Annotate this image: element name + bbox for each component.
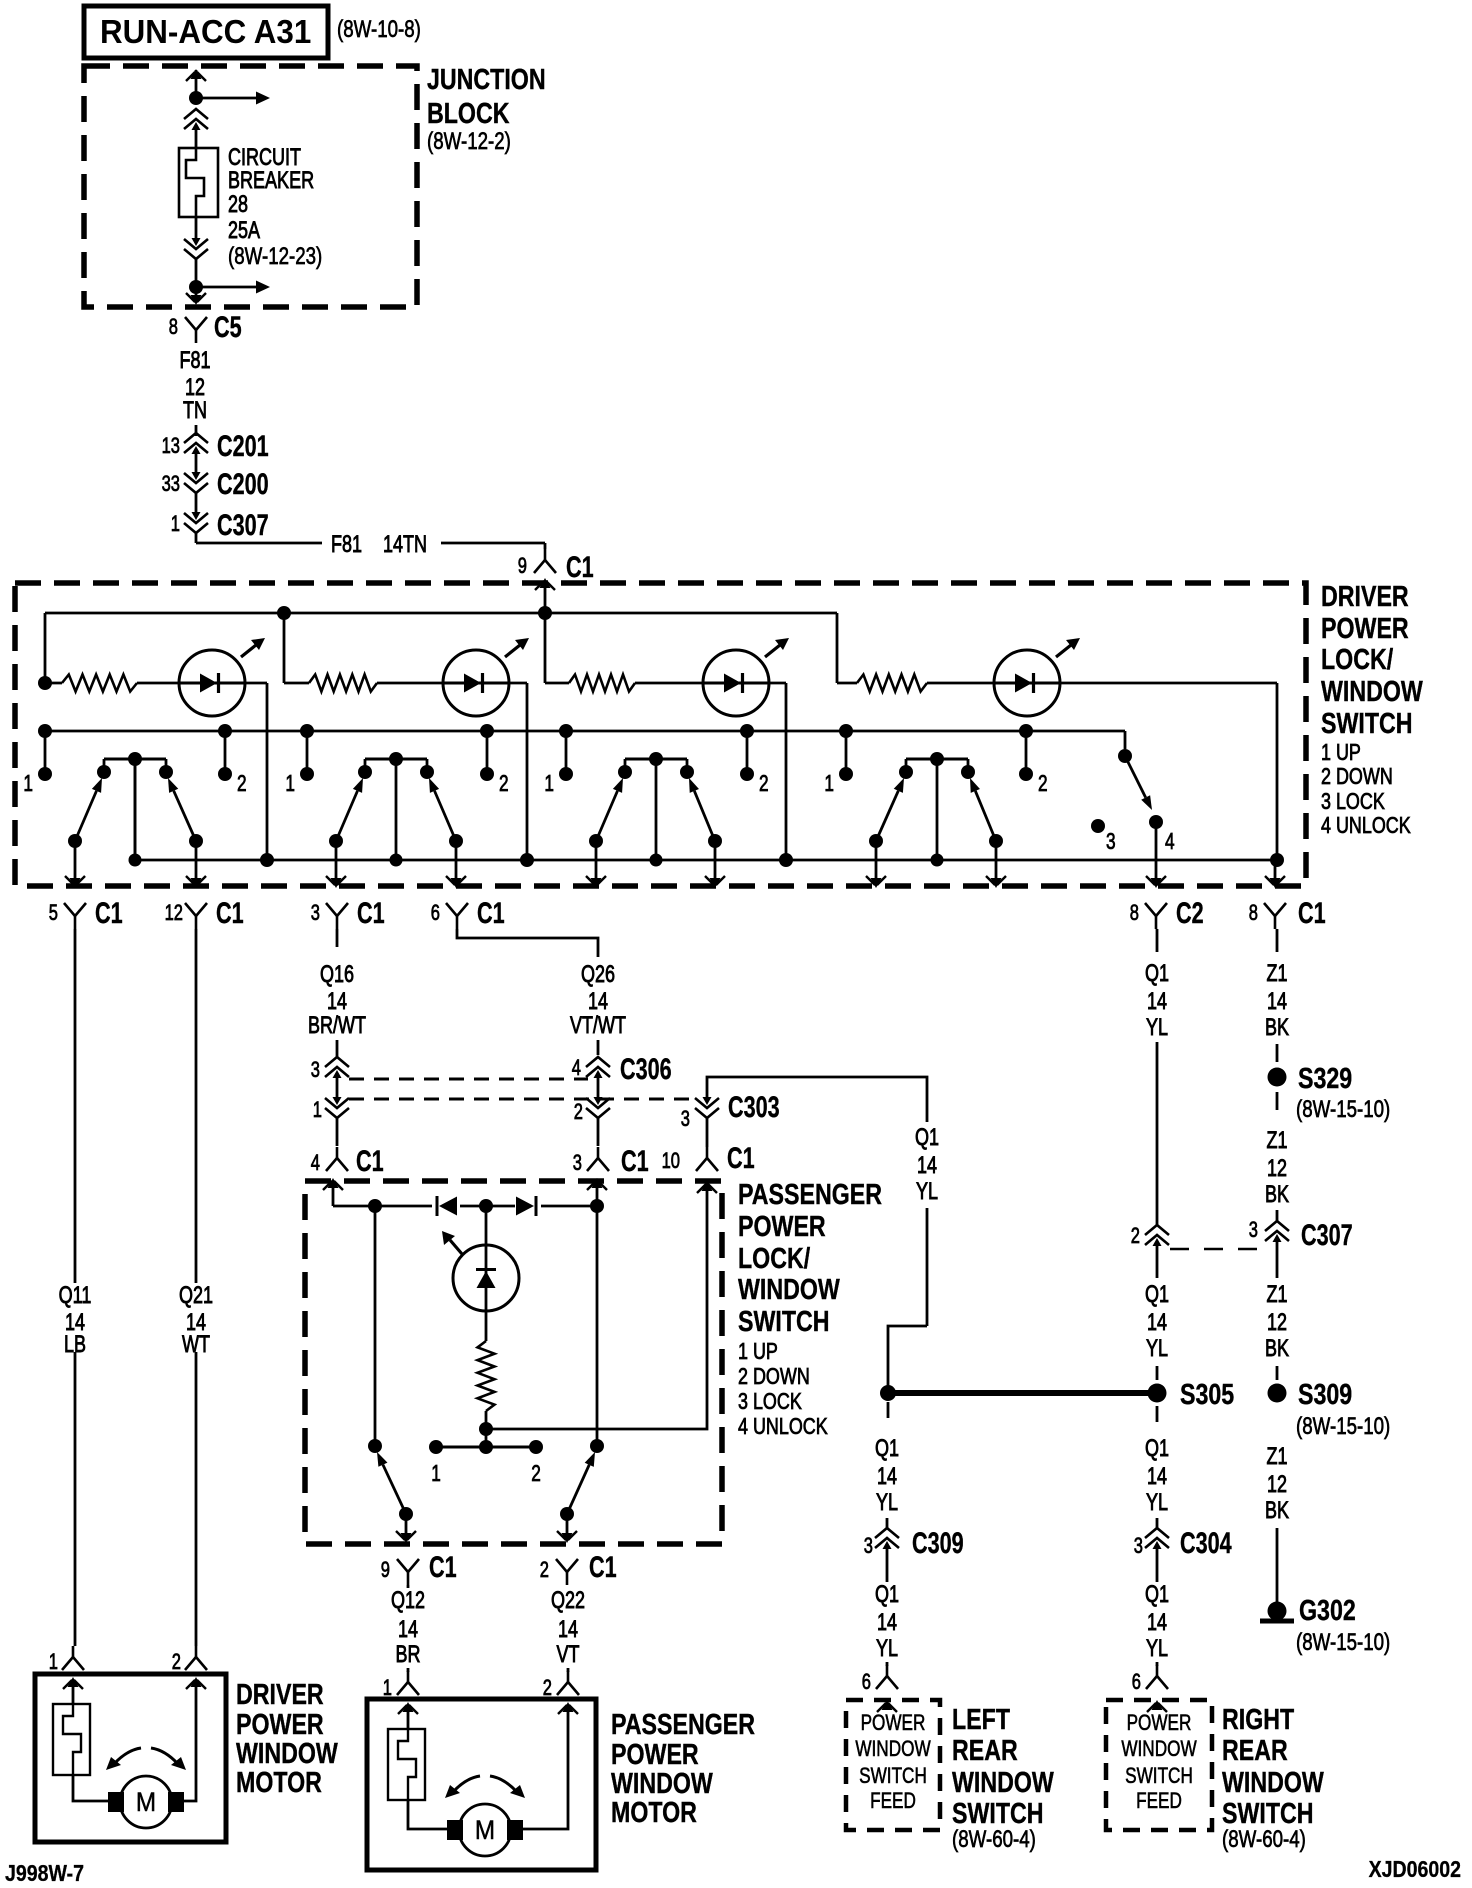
connector dashed link C307 <box>1170 1248 1262 1251</box>
connector C1 pin 2 below passenger <box>540 1551 617 1585</box>
connector pin 2 driver motor <box>172 1640 207 1674</box>
svg-text:C304: C304 <box>1180 1527 1232 1560</box>
wire feed unit3 <box>544 613 547 683</box>
svg-text:FEED: FEED <box>1136 1788 1182 1813</box>
svg-text:Q26: Q26 <box>581 961 615 988</box>
svg-text:12: 12 <box>1267 1309 1287 1336</box>
connector C1 pin 9 below passenger <box>381 1551 457 1585</box>
driver power window motor box <box>35 1674 226 1842</box>
connector C1 pin 6 below driver switch <box>431 897 505 930</box>
svg-text:2: 2 <box>540 1557 549 1582</box>
node 2 stub unit4 <box>1019 731 1033 781</box>
wire to G302 <box>1276 1528 1279 1602</box>
sheet label J998W-7 <box>5 1860 84 1886</box>
top bus wire <box>45 612 837 615</box>
svg-text:BK: BK <box>1265 1014 1289 1041</box>
svg-text:S305: S305 <box>1180 1379 1234 1411</box>
dash to S329 <box>1276 1044 1279 1062</box>
svg-text:BK: BK <box>1265 1181 1289 1208</box>
svg-text:3: 3 <box>864 1533 873 1558</box>
connector C1 pin 8 below driver switch <box>1249 897 1326 930</box>
svg-text:C5: C5 <box>214 311 242 344</box>
svg-text:SWITCH: SWITCH <box>1125 1763 1193 1788</box>
wire from RUN-ACC into junction block <box>186 69 206 98</box>
exit wires unit2 <box>326 841 466 888</box>
wire Q16 column <box>336 929 339 1057</box>
label 1 unit4 <box>824 770 834 796</box>
connector C306 pin 4 upper <box>572 1055 610 1097</box>
connector C5 pin 8 <box>169 311 242 344</box>
svg-text:1 UP: 1 UP <box>1321 739 1361 765</box>
passenger motor M <box>447 1804 523 1856</box>
svg-text:LOCK/: LOCK/ <box>1321 644 1393 676</box>
resistor unit1 <box>45 675 180 692</box>
LED indicator unit3 <box>703 638 789 716</box>
svg-text:9: 9 <box>381 1557 390 1582</box>
svg-text:1: 1 <box>431 1460 441 1486</box>
svg-text:25A: 25A <box>228 217 260 244</box>
svg-text:PASSENGER: PASSENGER <box>738 1179 882 1211</box>
connector dashed line C306 lower <box>349 1098 694 1101</box>
wire label Q1 14 YL upper <box>1145 960 1169 1041</box>
svg-text:YL: YL <box>1146 1014 1168 1041</box>
node feed dot top <box>189 91 203 105</box>
svg-text:POWER: POWER <box>738 1211 826 1243</box>
driver motor entry arrows <box>63 1677 206 1704</box>
junction dot resistor tap unit1 <box>38 676 52 690</box>
svg-text:4: 4 <box>1165 828 1175 854</box>
junction dot top bus unit2 <box>277 606 291 620</box>
svg-text:LB: LB <box>64 1331 86 1358</box>
svg-text:VT: VT <box>557 1641 580 1668</box>
svg-text:LOCK/: LOCK/ <box>738 1243 810 1275</box>
svg-text:WINDOW: WINDOW <box>738 1274 840 1306</box>
label DRIVER POWER WINDOW MOTOR <box>236 1679 338 1799</box>
svg-text:C201: C201 <box>217 430 269 463</box>
svg-text:YL: YL <box>916 1178 938 1205</box>
connector chevrons above breaker <box>184 109 208 148</box>
svg-text:C303: C303 <box>728 1091 780 1124</box>
svg-text:WT: WT <box>182 1331 210 1358</box>
wire to C201 <box>195 425 198 436</box>
connector C200 pin 33 <box>162 468 269 501</box>
svg-text:C309: C309 <box>912 1527 964 1560</box>
svg-text:Z1: Z1 <box>1267 1281 1288 1308</box>
connector C1 pin 5 below driver switch <box>49 897 123 930</box>
connector pin 6 right feed <box>1132 1662 1168 1694</box>
wire Q12 column <box>407 1585 410 1588</box>
svg-text:WINDOW: WINDOW <box>1121 1736 1196 1761</box>
exit wires unit3 <box>586 841 725 888</box>
driver motor wiring <box>73 1700 196 1801</box>
svg-text:3: 3 <box>311 1057 320 1082</box>
svg-text:8: 8 <box>1249 900 1258 925</box>
svg-text:28: 28 <box>228 191 248 218</box>
connector dashed line C306 upper <box>349 1078 588 1081</box>
connector C1 pin 10 entry passenger <box>662 1142 755 1175</box>
connector pin 1 driver motor <box>49 1640 84 1674</box>
node feed dot bottom <box>189 280 203 294</box>
wire label Z1 12 BK middle <box>1265 1281 1289 1362</box>
svg-text:Q21: Q21 <box>179 1282 213 1309</box>
wire Q11 column <box>74 929 77 1640</box>
svg-text:PASSENGER: PASSENGER <box>611 1709 755 1741</box>
svg-text:1: 1 <box>313 1097 322 1122</box>
label C306 <box>620 1053 672 1086</box>
switch common post unit2 <box>390 759 403 867</box>
svg-text:Q1: Q1 <box>1145 1435 1169 1462</box>
svg-text:2: 2 <box>237 770 247 796</box>
switch common post unit3 <box>650 759 663 867</box>
svg-text:Z1: Z1 <box>1267 960 1288 987</box>
node 1 stub unit1 <box>38 731 52 781</box>
wire label Z1 12 BK lower <box>1265 1443 1289 1524</box>
wire thick to S305 <box>888 1390 1157 1396</box>
svg-text:2: 2 <box>1038 770 1048 796</box>
node 1 stub unit3 <box>559 731 573 781</box>
junction dot bus2 node2 unit1 <box>218 724 232 738</box>
svg-text:REAR: REAR <box>1222 1735 1288 1767</box>
svg-text:C1: C1 <box>216 897 244 930</box>
wire label Q1 14 YL lower right <box>1145 1435 1169 1516</box>
svg-text:14: 14 <box>877 1463 897 1490</box>
wire label Q1 14 YL right of passenger box <box>915 1124 939 1205</box>
passenger power window motor box <box>367 1699 596 1870</box>
passenger motor circuit breaker <box>388 1729 425 1800</box>
svg-text:C1: C1 <box>356 1145 384 1178</box>
junction dot bus2 node2 unit3 <box>740 724 754 738</box>
junction dot Q1 branch <box>880 1385 896 1401</box>
svg-text:8: 8 <box>1130 900 1139 925</box>
connector C304 pin 3 <box>1134 1527 1232 1582</box>
svg-text:(8W-60-4): (8W-60-4) <box>952 1826 1036 1853</box>
connector C2 pin 8 below driver switch <box>1130 897 1204 930</box>
wire left feed column <box>887 1402 890 1418</box>
svg-text:WINDOW: WINDOW <box>1222 1767 1324 1799</box>
wire Q21 column <box>195 929 198 1640</box>
junction dot bus2 node1 unit2 <box>300 724 314 738</box>
bottom bus wire <box>135 761 1275 860</box>
svg-text:MOTOR: MOTOR <box>611 1797 697 1829</box>
splice S309 <box>1268 1379 1353 1411</box>
passenger left wiper <box>368 1206 413 1521</box>
dash to S309 <box>1276 1366 1279 1380</box>
svg-text:2: 2 <box>499 770 509 796</box>
wire LED output unit3 <box>768 683 786 860</box>
wire label Q26 14 VT/WT <box>570 961 626 1039</box>
splice S305 <box>1148 1379 1235 1411</box>
wire to C309 <box>886 1518 889 1528</box>
svg-text:TN: TN <box>183 397 207 424</box>
svg-text:(8W-60-4): (8W-60-4) <box>1222 1826 1306 1853</box>
svg-text:2: 2 <box>1131 1223 1140 1248</box>
svg-text:14: 14 <box>558 1616 578 1643</box>
wire to C307 pin3 <box>1276 1210 1279 1221</box>
svg-text:4 UNLOCK: 4 UNLOCK <box>738 1413 828 1439</box>
label PASSENGER POWER WINDOW MOTOR <box>611 1709 755 1829</box>
svg-text:J998W-7: J998W-7 <box>5 1860 84 1886</box>
sheet label XJD06002 <box>1369 1856 1461 1882</box>
dash below S305 <box>1156 1406 1159 1422</box>
svg-text:33: 33 <box>162 471 180 496</box>
wire to C307 <box>195 493 198 512</box>
connector C201 pin 13 <box>162 430 269 463</box>
svg-text:2 DOWN: 2 DOWN <box>1321 763 1393 789</box>
left rear feed dashed box <box>846 1700 940 1830</box>
connector pin 1 passenger motor <box>383 1668 419 1700</box>
wire label F81 12 TN <box>180 347 211 424</box>
svg-text:1: 1 <box>49 1649 58 1674</box>
svg-text:6: 6 <box>431 900 440 925</box>
svg-text:POWER: POWER <box>861 1710 926 1735</box>
svg-text:(8W-12-23): (8W-12-23) <box>228 243 322 270</box>
svg-text:S309: S309 <box>1298 1379 1352 1411</box>
driver motor rotation arrows <box>106 1748 186 1770</box>
svg-text:6: 6 <box>862 1669 871 1694</box>
svg-text:Q1: Q1 <box>875 1581 899 1608</box>
svg-text:YL: YL <box>876 1635 898 1662</box>
wire to C200 <box>195 454 198 472</box>
driver motor circuit breaker <box>53 1704 90 1775</box>
svg-text:(8W-15-10): (8W-15-10) <box>1296 1096 1390 1123</box>
wire label Q22 14 VT <box>551 1587 585 1668</box>
wire label Z1 12 BK upper <box>1265 1127 1289 1208</box>
passenger entry arrows <box>323 1178 717 1206</box>
svg-text:BR/WT: BR/WT <box>308 1012 366 1039</box>
svg-text:YL: YL <box>1146 1335 1168 1362</box>
connector C306 pin 3 upper <box>311 1057 349 1097</box>
svg-text:FEED: FEED <box>870 1788 916 1813</box>
junction dot LED output unit1 <box>260 853 274 867</box>
svg-text:C200: C200 <box>217 468 269 501</box>
svg-text:2: 2 <box>759 770 769 796</box>
svg-text:14: 14 <box>1147 1309 1167 1336</box>
svg-text:(8W-15-10): (8W-15-10) <box>1296 1629 1390 1656</box>
wire Q26 jog from C1 pin 6 <box>457 929 598 1055</box>
svg-text:Q1: Q1 <box>875 1435 899 1462</box>
connector C1 pin 12 below driver switch <box>165 897 244 930</box>
svg-text:3: 3 <box>1134 1533 1143 1558</box>
svg-text:XJD06002: XJD06002 <box>1369 1856 1461 1882</box>
svg-text:3 LOCK: 3 LOCK <box>1321 788 1385 814</box>
svg-text:YL: YL <box>1146 1489 1168 1516</box>
passenger resistor <box>478 1310 495 1429</box>
svg-text:(8W-12-2): (8W-12-2) <box>427 128 511 155</box>
svg-text:14: 14 <box>1147 988 1167 1015</box>
svg-text:2: 2 <box>531 1460 541 1486</box>
svg-text:3: 3 <box>311 900 320 925</box>
node 2 stub unit2 <box>480 731 494 781</box>
svg-text:3: 3 <box>681 1106 690 1131</box>
svg-text:M: M <box>475 1815 495 1845</box>
label 1 unit3 <box>544 770 554 796</box>
wire Q1 column from C2 pin 8 <box>1156 929 1159 1225</box>
svg-text:C1: C1 <box>566 551 594 584</box>
exit wires unit1 <box>65 841 206 888</box>
label LEFT REAR WINDOW SWITCH <box>952 1704 1054 1853</box>
junction dot LED output unit4 <box>1270 853 1284 867</box>
connector C309 pin 3 <box>864 1527 964 1582</box>
svg-text:WINDOW: WINDOW <box>236 1738 338 1770</box>
svg-text:12: 12 <box>1267 1471 1287 1498</box>
junction dot bus2 node1 unit1 <box>38 724 52 738</box>
svg-text:S329: S329 <box>1298 1063 1352 1095</box>
svg-text:WINDOW: WINDOW <box>952 1767 1054 1799</box>
svg-text:9: 9 <box>518 553 527 578</box>
second bus wire <box>45 730 1125 733</box>
LED indicator unit4 <box>994 638 1080 716</box>
power feed box RUN-ACC A31 <box>84 6 328 58</box>
wire label Z1 14 BK <box>1265 960 1289 1041</box>
junction dot bus2 node1 unit4 <box>839 724 853 738</box>
passenger motor entry arrows <box>398 1702 578 1729</box>
svg-text:14: 14 <box>877 1609 897 1636</box>
svg-text:C306: C306 <box>620 1053 672 1086</box>
passenger top bus with diodes <box>333 1196 604 1216</box>
rocker switch unit2 <box>329 752 463 848</box>
wire bottom bus to C1 pin 8 exit <box>1265 860 1285 888</box>
svg-text:2: 2 <box>543 1675 552 1700</box>
svg-text:JUNCTION: JUNCTION <box>427 64 546 96</box>
svg-text:C1: C1 <box>95 897 123 930</box>
label 2 unit1 <box>237 770 247 796</box>
svg-text:C1: C1 <box>477 897 505 930</box>
junction dot LED output unit3 <box>779 853 793 867</box>
label (8W-15-10) S309 <box>1296 1413 1390 1440</box>
wire pin10 to resistor bottom <box>479 1206 707 1436</box>
svg-text:12: 12 <box>1267 1155 1287 1182</box>
svg-text:(8W-15-10): (8W-15-10) <box>1296 1413 1390 1440</box>
connector C306 pin 2 lower <box>574 1097 610 1146</box>
svg-text:Q1: Q1 <box>915 1124 939 1151</box>
svg-text:DRIVER: DRIVER <box>1321 581 1409 613</box>
svg-text:1: 1 <box>171 511 180 536</box>
svg-text:F81: F81 <box>331 531 362 558</box>
connector C307 pin 2 <box>1131 1223 1169 1278</box>
wire LED output unit2 <box>508 683 527 860</box>
svg-text:C307: C307 <box>1301 1219 1353 1252</box>
svg-text:SWITCH: SWITCH <box>859 1763 927 1788</box>
wire label Q12 14 BR <box>391 1587 425 1668</box>
svg-text:Q1: Q1 <box>1145 1281 1169 1308</box>
svg-text:POWER: POWER <box>611 1739 699 1771</box>
svg-text:(8W-10-8): (8W-10-8) <box>337 16 421 43</box>
right feed entry arrow <box>1147 1700 1167 1712</box>
wire label Q1 14 YL middle <box>1145 1281 1169 1362</box>
wire jog to S305 junction <box>888 1326 927 1386</box>
connector pin 2 passenger motor <box>543 1668 579 1700</box>
connector C1 pin 9 entry <box>518 549 594 584</box>
svg-text:REAR: REAR <box>952 1735 1018 1767</box>
wire Z1 column from C1 pin 8 <box>1276 929 1279 952</box>
svg-text:BK: BK <box>1265 1335 1289 1362</box>
svg-text:1: 1 <box>285 770 295 796</box>
svg-text:6: 6 <box>1132 1669 1141 1694</box>
svg-text:BR: BR <box>396 1641 421 1668</box>
junction dot LED output unit2 <box>520 853 534 867</box>
wire LED output unit1 <box>244 683 267 860</box>
svg-text:14: 14 <box>398 1616 418 1643</box>
label 4 unlock contact <box>1165 828 1175 854</box>
svg-text:C2: C2 <box>1176 897 1204 930</box>
label 1 unit2 <box>285 770 295 796</box>
svg-text:14: 14 <box>588 988 608 1015</box>
left feed entry arrow <box>877 1700 897 1712</box>
dash below S329 <box>1276 1092 1279 1110</box>
connector C303 pin 3 <box>681 1091 780 1147</box>
connector C1 pin 3 below driver switch <box>311 897 385 930</box>
svg-text:14: 14 <box>1267 988 1287 1015</box>
svg-text:3: 3 <box>573 1150 582 1175</box>
connector chevrons below breaker <box>184 217 208 282</box>
label POWER WINDOW SWITCH FEED left <box>855 1710 930 1813</box>
node 2 stub unit3 <box>740 731 754 781</box>
svg-text:Z1: Z1 <box>1267 1127 1288 1154</box>
label RIGHT REAR WINDOW SWITCH <box>1222 1704 1324 1853</box>
svg-text:14: 14 <box>327 988 347 1015</box>
label 1 unit1 <box>23 770 33 796</box>
svg-text:4: 4 <box>311 1150 320 1175</box>
connector C1 pin 3 entry passenger <box>573 1145 649 1178</box>
svg-text:RIGHT: RIGHT <box>1222 1704 1294 1736</box>
exit wires unit4 <box>866 841 1006 888</box>
entry arrow into driver switch <box>535 578 555 613</box>
wire label Q1 14 YL bottom right <box>1145 1581 1169 1662</box>
svg-text:SWITCH: SWITCH <box>1321 708 1413 740</box>
svg-text:M: M <box>136 1787 156 1817</box>
wire label Q1 14 YL left feed upper <box>875 1435 899 1516</box>
junction dot top bus unit3 <box>538 606 552 620</box>
passenger power lock/window switch dashed box <box>305 1181 722 1544</box>
lock/unlock switch arm <box>1125 756 1163 829</box>
circuit breaker 28 25A <box>179 148 218 217</box>
junction dot bus2 node2 unit2 <box>480 724 494 738</box>
LED indicator unit1 <box>179 638 265 716</box>
connector pin 6 left feed <box>862 1662 898 1694</box>
svg-text:BREAKER: BREAKER <box>228 167 314 194</box>
passenger LED indicator <box>442 1206 519 1311</box>
svg-text:1 UP: 1 UP <box>738 1338 778 1364</box>
wire to C304 <box>1156 1518 1159 1528</box>
svg-text:Q16: Q16 <box>320 961 354 988</box>
svg-text:Q11: Q11 <box>59 1282 92 1309</box>
resistor unit2 <box>284 675 444 692</box>
svg-text:1: 1 <box>383 1675 392 1700</box>
junction block exit arrow <box>186 287 206 305</box>
label (8W-15-10) G302 <box>1296 1629 1390 1656</box>
svg-text:WINDOW: WINDOW <box>855 1736 930 1761</box>
wire unlock contact to exit <box>1146 822 1166 888</box>
svg-text:13: 13 <box>162 433 180 458</box>
svg-text:5: 5 <box>49 900 58 925</box>
svg-text:POWER: POWER <box>1127 1710 1192 1735</box>
svg-text:4 UNLOCK: 4 UNLOCK <box>1321 812 1411 838</box>
svg-text:RUN-ACC A31: RUN-ACC A31 <box>100 13 311 50</box>
svg-text:BK: BK <box>1265 1497 1289 1524</box>
svg-text:14: 14 <box>1147 1609 1167 1636</box>
node 2 stub unit1 <box>218 731 232 781</box>
ground G302 <box>1260 1595 1356 1627</box>
svg-text:BLOCK: BLOCK <box>427 98 510 130</box>
svg-text:C1: C1 <box>727 1142 755 1175</box>
svg-text:4: 4 <box>572 1055 581 1080</box>
dash to S305 <box>1156 1366 1159 1380</box>
passenger motor rotation arrows <box>445 1776 525 1798</box>
svg-text:C1: C1 <box>429 1551 457 1584</box>
connector C306 pin 1 lower <box>313 1097 349 1146</box>
branch arrow right bottom <box>196 281 270 294</box>
branch arrow right top <box>196 92 270 105</box>
